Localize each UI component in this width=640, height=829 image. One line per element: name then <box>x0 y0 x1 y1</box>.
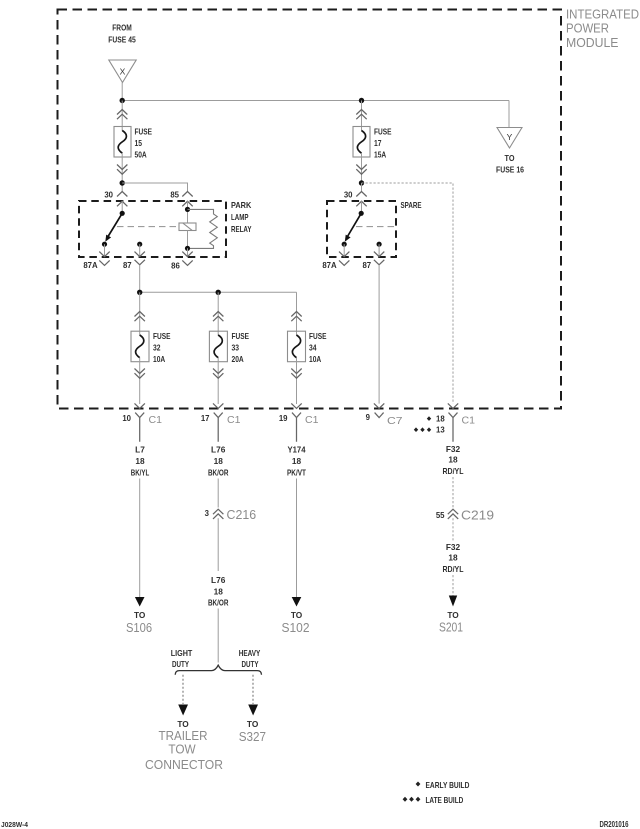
svg-text:INTEGRATED: INTEGRATED <box>566 8 639 22</box>
svg-text:87: 87 <box>362 261 371 270</box>
wire L76 upper <box>217 479 219 508</box>
svg-text:18: 18 <box>448 455 458 465</box>
svg-text:TO: TO <box>291 610 303 620</box>
wire label L76 18 BK/OR (2) <box>208 575 229 608</box>
arrow to S106 <box>135 597 145 607</box>
svg-text:17: 17 <box>201 414 210 423</box>
svg-text:33: 33 <box>232 343 240 353</box>
svg-text:TO: TO <box>505 153 515 163</box>
svg-text:BK/YL: BK/YL <box>131 468 150 478</box>
svg-text:50A: 50A <box>135 150 147 160</box>
wire fuse 15 to relay <box>121 153 123 192</box>
junction dot B <box>359 98 364 103</box>
svg-text:X: X <box>120 67 126 77</box>
integrated power module label <box>566 8 639 50</box>
svg-text:EARLY BUILD: EARLY BUILD <box>426 780 470 790</box>
svg-text:FUSE: FUSE <box>153 331 171 341</box>
wire F32 mid <box>452 518 454 541</box>
switch link dashed (spare) <box>356 226 396 228</box>
feed bus wire <box>140 291 297 293</box>
connector C1 pin 10 <box>135 403 145 408</box>
main horizontal wire <box>122 100 509 102</box>
fuse 32 <box>131 331 149 362</box>
wire junction C to pin 85 <box>122 183 187 192</box>
wire label Y174 18 PK/VT <box>287 445 306 478</box>
wire to fuse 34 <box>296 292 298 335</box>
svg-text:DUTY: DUTY <box>242 659 259 669</box>
wire L76 lower <box>217 609 219 663</box>
svg-text:32: 32 <box>153 343 161 353</box>
svg-text:BK/OR: BK/OR <box>208 468 229 478</box>
svg-text:C1: C1 <box>305 415 319 426</box>
svg-text:C219: C219 <box>461 509 494 523</box>
svg-text:30: 30 <box>104 191 113 200</box>
connector X from fuse 45 <box>109 60 136 83</box>
svg-text:L76: L76 <box>211 445 226 455</box>
svg-text:TO: TO <box>177 719 189 729</box>
switch link dashed <box>117 226 179 228</box>
wire to fuse 32 <box>139 292 141 335</box>
wire L76 mid <box>217 518 219 571</box>
fuse 15 bottom terminals <box>117 165 127 175</box>
integrated power module border <box>58 10 562 409</box>
svg-text:TRAILER: TRAILER <box>159 729 208 743</box>
junction dot H <box>216 290 221 295</box>
junction dot G <box>137 290 142 295</box>
arrow to trailer tow connector <box>178 705 188 716</box>
svg-text:55: 55 <box>436 511 445 520</box>
svg-text:C216: C216 <box>227 508 257 522</box>
svg-text:17: 17 <box>374 138 382 148</box>
wire junction D to spare pin 30 <box>361 183 363 192</box>
arrow to S102 <box>292 597 302 607</box>
svg-text:10: 10 <box>122 414 131 423</box>
wire label F32 18 RD/YL <box>443 444 464 476</box>
svg-text:18: 18 <box>135 456 145 466</box>
svg-text:C1: C1 <box>462 416 476 427</box>
svg-text:18: 18 <box>214 587 224 597</box>
svg-text:18: 18 <box>436 415 445 424</box>
from fuse 45 label <box>108 23 136 45</box>
svg-text:20A: 20A <box>232 354 244 364</box>
wire pin 87 (spare) to C7 <box>378 265 380 404</box>
svg-text:L7: L7 <box>135 445 145 455</box>
svg-text:L76: L76 <box>211 575 226 585</box>
park lamp relay label <box>231 200 252 234</box>
fuse 32 top terminals <box>135 312 145 322</box>
fuse 17 bottom terminals <box>356 165 366 175</box>
svg-text:TO: TO <box>134 610 146 620</box>
svg-text:PARK: PARK <box>231 200 251 210</box>
fuse 34 <box>288 331 306 362</box>
svg-text:C1: C1 <box>149 415 163 426</box>
junction dot D <box>359 180 364 185</box>
junction dot F <box>185 246 190 251</box>
fuse 15 <box>114 127 131 158</box>
spare relay box <box>327 201 396 257</box>
svg-text:LIGHT: LIGHT <box>171 648 193 658</box>
svg-text:S102: S102 <box>282 621 310 635</box>
resistor (relay) <box>188 209 218 248</box>
svg-text:HEAVY: HEAVY <box>239 648 261 658</box>
wire Y174 <box>296 479 298 598</box>
switch (park lamp relay) <box>120 211 125 216</box>
wire F32 upper <box>452 477 454 508</box>
relay coil <box>179 223 196 231</box>
fuse 17 <box>353 127 370 158</box>
connector C216 <box>213 509 223 519</box>
brace <box>175 665 261 675</box>
svg-text:J028W-4: J028W-4 <box>1 820 29 829</box>
svg-text:19: 19 <box>279 414 288 423</box>
late build marker <box>403 797 408 802</box>
svg-text:DUTY: DUTY <box>172 659 189 669</box>
arrow to S201 <box>449 596 457 607</box>
wire into fuse 17 <box>361 101 363 132</box>
connector C1 pin 19 <box>291 403 301 408</box>
svg-text:C7: C7 <box>387 416 403 427</box>
svg-text:FUSE: FUSE <box>135 127 153 137</box>
svg-text:30: 30 <box>344 191 353 200</box>
fuse 34 bottom terminals <box>291 369 301 379</box>
fuse 33 <box>209 331 227 362</box>
switch (spare relay) <box>359 211 364 216</box>
svg-text:DR201016: DR201016 <box>600 820 629 829</box>
to fuse 16 label <box>496 153 524 175</box>
svg-text:PK/VT: PK/VT <box>287 468 306 478</box>
svg-text:10A: 10A <box>309 354 321 364</box>
wire label F32 18 RD/YL (2) <box>443 542 464 574</box>
wire fuse 33 to C1 <box>217 358 219 405</box>
svg-text:TO: TO <box>447 610 459 620</box>
wire to Y <box>508 101 510 128</box>
svg-text:87A: 87A <box>322 261 337 270</box>
svg-text:18: 18 <box>448 553 458 563</box>
svg-text:3: 3 <box>205 509 210 518</box>
svg-text:C1: C1 <box>227 415 241 426</box>
wire F32 lower <box>452 575 454 596</box>
svg-text:34: 34 <box>309 343 317 353</box>
junction dot A <box>120 98 125 103</box>
connector C1 pin 17 <box>213 403 223 408</box>
svg-text:POWER: POWER <box>566 22 609 36</box>
svg-text:S201: S201 <box>439 621 463 635</box>
svg-text:S327: S327 <box>239 730 266 744</box>
svg-text:CONNECTOR: CONNECTOR <box>145 758 223 772</box>
svg-text:Y: Y <box>507 132 513 142</box>
wire X to junction <box>121 83 123 101</box>
connector C7 pin 9 <box>374 403 384 408</box>
fuse 32 bottom terminals <box>135 369 145 379</box>
svg-text:FROM: FROM <box>112 23 132 33</box>
junction dot C <box>120 180 125 185</box>
wire to trailer tow connector <box>182 675 184 704</box>
svg-text:85: 85 <box>170 191 179 200</box>
svg-text:FUSE 16: FUSE 16 <box>496 165 524 175</box>
svg-text:FUSE 45: FUSE 45 <box>108 35 136 45</box>
wire label L76 18 BK/OR <box>208 445 229 478</box>
svg-text:86: 86 <box>171 262 180 271</box>
fuse 33 bottom terminals <box>213 369 223 379</box>
svg-text:10A: 10A <box>153 354 165 364</box>
junction dot E <box>185 207 190 212</box>
wire fuse 17 down <box>361 153 363 192</box>
pin 86 <box>187 248 189 256</box>
early build marker <box>416 782 421 787</box>
pin 87 (spare) <box>377 242 382 247</box>
pin 87A <box>104 244 106 257</box>
wire fuse 34 to C1 <box>296 358 298 405</box>
wire pin 87 down <box>139 265 141 293</box>
svg-text:FUSE: FUSE <box>309 331 327 341</box>
svg-text:13: 13 <box>436 426 445 435</box>
svg-text:15: 15 <box>135 138 143 148</box>
wire L7 <box>139 479 141 598</box>
wire into fuse 15 <box>121 101 123 132</box>
svg-text:SPARE: SPARE <box>401 200 422 210</box>
svg-text:18: 18 <box>292 456 302 466</box>
pin 87 <box>137 242 142 247</box>
light duty / heavy duty labels <box>171 648 261 669</box>
svg-text:9: 9 <box>366 413 371 422</box>
wire to fuse 33 <box>217 292 219 335</box>
svg-text:87A: 87A <box>83 261 98 270</box>
connector C219 <box>448 509 458 519</box>
svg-text:LATE BUILD: LATE BUILD <box>426 795 464 805</box>
arrow to S327 <box>248 705 258 716</box>
wire junction D to right C1 <box>362 183 454 404</box>
svg-text:RD/YL: RD/YL <box>443 466 464 476</box>
fuse 15 top terminals <box>117 110 127 120</box>
svg-text:MODULE: MODULE <box>566 36 619 50</box>
svg-text:Y174: Y174 <box>288 445 306 455</box>
svg-text:F32: F32 <box>446 542 461 552</box>
svg-text:FUSE: FUSE <box>374 127 392 137</box>
svg-text:TOW: TOW <box>168 743 195 757</box>
wire fuse 32 to C1 <box>139 358 141 405</box>
wire label L7 18 BK/YL <box>131 445 150 478</box>
svg-text:FUSE: FUSE <box>232 331 250 341</box>
connector C1 pin 18/13 <box>448 403 458 408</box>
svg-text:TO: TO <box>247 719 259 729</box>
park lamp relay box <box>79 201 226 257</box>
connector Y to fuse 16 <box>497 128 522 149</box>
svg-text:RD/YL: RD/YL <box>443 564 464 574</box>
fuse 17 top terminals <box>356 110 366 120</box>
svg-text:18: 18 <box>214 456 224 466</box>
svg-text:F32: F32 <box>446 444 461 454</box>
svg-text:S106: S106 <box>126 621 152 635</box>
wire to S327 <box>252 675 254 704</box>
fuse 33 top terminals <box>213 312 223 322</box>
svg-text:LAMP: LAMP <box>231 212 249 222</box>
fuse 34 top terminals <box>291 312 301 322</box>
svg-text:15A: 15A <box>374 150 386 160</box>
svg-text:RELAY: RELAY <box>231 224 252 234</box>
svg-text:BK/OR: BK/OR <box>208 598 229 608</box>
pin 87A (spare) <box>343 244 345 257</box>
svg-text:87: 87 <box>123 261 132 270</box>
